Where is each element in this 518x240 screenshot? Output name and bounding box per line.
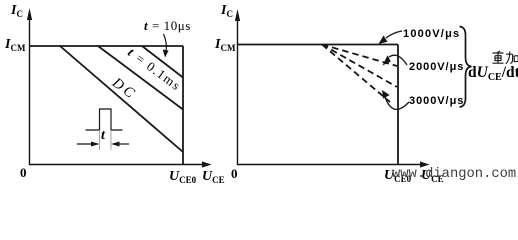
label dU_CE/dt: [468, 64, 518, 83]
x-axis arrowhead (left): [202, 161, 212, 167]
SOA right boundary line (left): [182, 46, 184, 165]
diagonal t=0.1ms (left): [98, 46, 183, 110]
label 0 (right origin): [231, 166, 238, 182]
label U_CE (right): [421, 168, 444, 184]
dashed line 1000V/us: [322, 45, 397, 67]
pulse waveform icon: [86, 109, 123, 130]
label U_CE0 (right): [384, 168, 411, 184]
watermark www.diangon.com: [392, 167, 516, 182]
label I_C (right): [221, 3, 233, 19]
x-axis arrowhead (right): [420, 161, 430, 167]
label I_CM (right): [215, 37, 235, 53]
leader arrow 2000V/us: [389, 55, 407, 65]
SOA top boundary line (right): [238, 44, 399, 46]
dashed line 2000V/us: [322, 45, 397, 88]
leader arrow 1000V/us: [386, 31, 402, 38]
label 1000V/us: [403, 28, 460, 40]
dashed line 3000V/us: [322, 45, 390, 103]
SOA right boundary line (right): [397, 45, 399, 165]
SOA top boundary line (left): [30, 45, 184, 47]
big curly brace: [460, 27, 472, 108]
pulse width guide lines: [99, 130, 101, 150]
leader arrow from label t=10us: [164, 34, 167, 52]
y-axis arrowhead (left): [27, 8, 32, 20]
label U_CE (left): [202, 169, 225, 185]
label 2000V/us: [409, 61, 464, 73]
x-axis (left graph): [30, 164, 204, 166]
y-axis arrowhead (right): [235, 9, 240, 21]
label DC (rotated): [109, 75, 140, 104]
pulse width dimension arrows: [77, 143, 97, 145]
x-axis (right graph): [238, 164, 422, 166]
label t=10us: [144, 18, 191, 34]
label I_C (left): [11, 3, 23, 19]
label 3000V/us: [409, 95, 464, 107]
label I_CM (left): [5, 37, 25, 53]
y-axis (right graph): [237, 15, 239, 165]
diagonal DC (left): [60, 46, 183, 152]
diagonal t=10us (left): [142, 46, 183, 78]
label 0 (left origin): [20, 165, 27, 181]
y-axis (left graph): [29, 14, 31, 165]
leader arrow 3000V/us: [385, 97, 409, 109]
label U_CE0 (left): [169, 169, 196, 185]
label t=0.1ms (rotated): [125, 45, 186, 96]
label chongjia (Chinese chars drawn as SVG strokes): [492, 50, 518, 66]
label t (pulse width): [101, 128, 105, 144]
